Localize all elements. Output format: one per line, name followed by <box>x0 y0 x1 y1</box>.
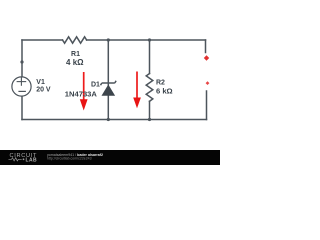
svg-text:20 V: 20 V <box>36 87 51 94</box>
voltage source V1 <box>12 77 31 96</box>
wire bottom-right stub <box>206 91 208 120</box>
wire diode branch <box>107 40 109 120</box>
node junction D1 top <box>107 38 110 41</box>
wire R2 branch lower <box>149 101 151 119</box>
wire top-left segment <box>22 39 63 41</box>
resistor R2 <box>146 74 153 102</box>
unconnected terminal marker bottom <box>206 81 210 85</box>
node junction R2 bottom <box>148 118 151 121</box>
current arrow probe at R2 <box>133 72 141 109</box>
svg-text:D1: D1 <box>91 82 100 89</box>
svg-text:R2: R2 <box>156 79 165 86</box>
svg-text:4 kΩ: 4 kΩ <box>66 58 84 67</box>
unconnected terminal marker top <box>204 55 209 61</box>
current arrow probe at D1 <box>80 72 88 111</box>
svg-text:V1: V1 <box>36 79 45 86</box>
node junction V1 top <box>20 60 23 63</box>
wire top-right stub <box>205 40 207 53</box>
svg-text:LAB: LAB <box>26 158 37 164</box>
zener diode D1 <box>101 81 117 96</box>
node junction D1 bottom <box>107 118 110 121</box>
resistor R1 <box>63 37 87 43</box>
svg-text:1N4733A: 1N4733A <box>65 89 98 98</box>
wire bottom rail <box>22 119 207 121</box>
node junction R2 top <box>148 38 151 41</box>
svg-text:http://circuitlab.com/c22e243: http://circuitlab.com/c22e243 <box>47 156 92 160</box>
wire R2 branch upper <box>149 40 151 74</box>
wire left rail lower <box>21 97 23 120</box>
svg-text:6 kΩ: 6 kΩ <box>156 87 173 96</box>
CircuitLab logo <box>9 153 38 164</box>
wire left rail upper <box>21 40 23 77</box>
wire top-right segment <box>87 39 206 41</box>
footer bar <box>0 150 220 165</box>
